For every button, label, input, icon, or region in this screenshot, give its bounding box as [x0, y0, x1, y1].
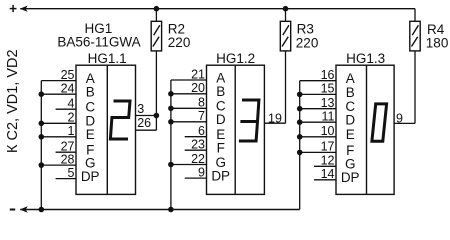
svg-text:16: 16 — [321, 68, 335, 82]
svg-text:14: 14 — [321, 167, 335, 181]
svg-text:DP: DP — [81, 169, 100, 184]
svg-text:R2: R2 — [168, 21, 185, 36]
svg-text:6: 6 — [198, 124, 205, 138]
svg-text:HG1.2: HG1.2 — [216, 51, 255, 66]
svg-text:26: 26 — [137, 116, 151, 130]
svg-text:17: 17 — [321, 140, 335, 154]
svg-text:1: 1 — [68, 124, 75, 138]
svg-text:28: 28 — [61, 152, 75, 166]
svg-text:4: 4 — [68, 97, 75, 111]
svg-text:24: 24 — [61, 82, 75, 96]
svg-text:23: 23 — [191, 138, 205, 152]
svg-text:15: 15 — [321, 82, 335, 96]
svg-text:21: 21 — [191, 67, 205, 81]
svg-text:BA56-11GWA: BA56-11GWA — [57, 34, 140, 49]
svg-text:25: 25 — [61, 68, 75, 82]
svg-text:9: 9 — [198, 165, 205, 179]
svg-text:D: D — [216, 112, 226, 127]
svg-text:22: 22 — [191, 152, 205, 166]
svg-text:HG1.1: HG1.1 — [88, 51, 127, 66]
svg-text:220: 220 — [168, 35, 191, 50]
svg-text:220: 220 — [296, 35, 319, 50]
svg-text:5: 5 — [68, 166, 75, 180]
svg-text:E: E — [346, 127, 355, 142]
svg-text:180: 180 — [426, 35, 449, 50]
svg-text:R3: R3 — [297, 21, 314, 36]
svg-text:F: F — [217, 141, 225, 156]
svg-text:DP: DP — [341, 170, 360, 185]
svg-text:27: 27 — [61, 140, 75, 154]
svg-text:К C2, VD1, VD2: К C2, VD1, VD2 — [5, 49, 21, 153]
svg-text:8: 8 — [198, 96, 205, 110]
svg-text:7: 7 — [198, 109, 205, 123]
svg-text:DP: DP — [211, 169, 230, 184]
svg-text:13: 13 — [321, 96, 335, 110]
svg-text:19: 19 — [268, 111, 282, 125]
svg-text:B: B — [346, 85, 355, 100]
svg-text:C: C — [85, 100, 95, 115]
svg-text:20: 20 — [191, 81, 205, 95]
svg-text:D: D — [345, 113, 355, 128]
svg-text:B: B — [216, 84, 225, 99]
svg-text:11: 11 — [322, 110, 335, 124]
svg-text:E: E — [86, 127, 95, 142]
svg-text:10: 10 — [321, 124, 335, 138]
svg-text:B: B — [86, 85, 95, 100]
svg-text:3: 3 — [137, 102, 144, 116]
svg-text:9: 9 — [396, 112, 403, 126]
svg-text:F: F — [346, 143, 354, 158]
svg-text:A: A — [216, 70, 225, 85]
svg-text:HG1.3: HG1.3 — [346, 51, 385, 66]
svg-text:12: 12 — [321, 154, 335, 168]
svg-text:2: 2 — [68, 111, 75, 125]
